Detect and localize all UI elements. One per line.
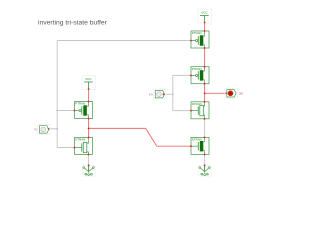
transistor Q1 (PTRAN) [190,30,209,49]
wire end cue at en port [163,93,165,95]
wire: Q3 source to Q4 drain [204,119,206,138]
wire: enable net to Q2 gate [173,74,191,76]
svg-text:en: en [149,93,153,97]
svg-text:out: out [239,92,244,96]
port en [149,89,166,99]
wire: inverter output diagonal [146,128,157,146]
transistor Q5 (PTRAN) [74,101,93,120]
wire: Q5 source to Q6 drain (inverter output) [88,119,90,138]
pin cue VCC right [204,22,206,24]
wire: output node to out port [205,92,227,94]
svg-text:VCC: VCC [85,77,92,81]
port out [225,88,243,98]
wire: in port to input trunk [49,128,58,130]
wire: VCC to Q5 drain [88,89,90,102]
junction: input trunk at in-port branch [56,128,58,130]
wire: Q6 source to ground [88,154,90,165]
transistor Q2 (PTRAN) [190,66,209,85]
wire: Q4 source to ground [204,154,206,165]
transistor Q6 (NTRAN) [74,136,93,155]
title text [38,20,108,27]
wire: inverter output to Q4 gate [157,145,191,147]
transistor Q3 (NTRAN) [190,101,209,120]
junction: input trunk at Q5 gate branch [56,110,58,112]
svg-text:VCC: VCC [201,11,208,15]
wire: input net to Q6 gate [57,147,74,149]
wire: inverter output horizontal run [89,127,146,129]
wire: VCC to Q1 drain [204,23,206,32]
wire: input net to Q5 gate [57,110,74,112]
port in [34,125,50,135]
svg-text:PTRAN: PTRAN [75,102,85,106]
svg-text:NTRAN: NTRAN [192,138,202,142]
svg-text:inverting tri-state buffer: inverting tri-state buffer [38,20,108,27]
svg-text:PTRAN: PTRAN [192,31,202,35]
pin cue VCC left [88,88,90,90]
junction: output node [204,92,206,94]
junction: enable trunk at en-port stub [172,93,174,95]
wire end cue at out port [225,92,227,94]
wire: en port stub [164,93,173,95]
transistor Q4 (NTRAN) [190,136,209,155]
wire: Q2 source to Q3 drain (output node) [204,84,206,102]
power symbol VCC1 (VCC) [82,76,96,90]
power symbol VCC2 (VCC) [198,9,212,23]
wire: enable net vertical trunk [172,75,174,110]
wire: enable net to Q3 gate [173,110,191,112]
svg-text:in: in [34,128,37,132]
ground symbol GND2 [199,164,212,176]
svg-text:NTRAN: NTRAN [75,138,85,142]
wire: Q1 source to Q2 drain [204,48,206,67]
junction: inverter output node [88,127,90,129]
wire: input net vertical trunk [56,41,58,148]
wire end cue at in port [48,128,50,130]
wire: input net to Q1 gate [57,40,191,42]
ground symbol GND1 [83,164,96,176]
